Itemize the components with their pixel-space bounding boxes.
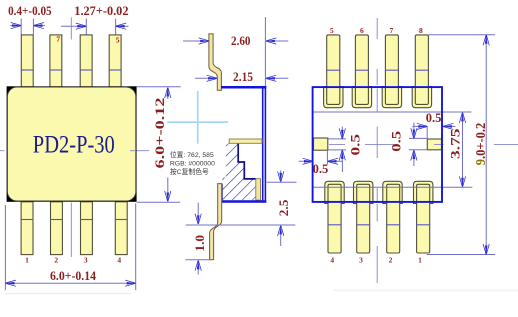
svg-text:7: 7: [390, 26, 394, 35]
dimension 2.15: [195, 70, 288, 84]
top pin 6: [355, 35, 369, 105]
dimension 3.75: [448, 112, 465, 186]
dimension 0.5 right pad height: [389, 123, 427, 167]
bottom pin 1: [21, 202, 34, 255]
svg-text:3: 3: [84, 255, 88, 264]
dimension 1.0: [186, 203, 212, 275]
svg-text:5: 5: [116, 35, 120, 44]
top pad 5: [324, 87, 343, 108]
top pin 8: [415, 35, 429, 105]
svg-text:4: 4: [117, 255, 121, 264]
dimension 0.5 left pad width: [299, 150, 343, 176]
top pin 7: [385, 35, 399, 105]
top pin 5: [109, 35, 122, 87]
svg-text:2.5: 2.5: [277, 200, 291, 217]
left side pad: [314, 138, 328, 150]
inner horizontal line bottom: [314, 186, 473, 188]
bottom pad 4: [325, 181, 344, 203]
svg-text:7: 7: [56, 35, 60, 44]
svg-text:0.4+-0.05: 0.4+-0.05: [8, 4, 52, 18]
svg-text:6: 6: [360, 26, 364, 35]
svg-text:0.5: 0.5: [426, 111, 442, 125]
bottom pin 1: [416, 184, 430, 253]
dimension 6.0+-0.14: [5, 204, 135, 291]
svg-text:0.5: 0.5: [348, 134, 362, 156]
dimension 0.4+-0.05: [8, 4, 52, 35]
bottom pin 2: [386, 184, 400, 253]
centerline horizontal over right pad: [434, 143, 518, 145]
package body black square: [7, 86, 137, 202]
top pin 7: [49, 35, 62, 87]
svg-text:1: 1: [25, 255, 29, 264]
svg-text:2.60: 2.60: [231, 34, 251, 48]
color picker tooltip: [166, 145, 226, 178]
svg-text:位置: 762, 585: 位置: 762, 585: [170, 150, 214, 159]
svg-text:3: 3: [359, 255, 363, 264]
svg-text:5: 5: [330, 26, 334, 35]
top pad 8: [412, 87, 431, 108]
svg-text:4: 4: [330, 255, 334, 264]
svg-text:3.75: 3.75: [448, 129, 462, 160]
svg-text:2: 2: [389, 255, 393, 264]
lower gull-wing lead: [210, 184, 222, 260]
svg-text:8: 8: [419, 26, 423, 35]
bottom pad 2: [383, 181, 402, 203]
svg-text:PD2-P-30: PD2-P-30: [33, 131, 115, 158]
bottom pin 4: [328, 184, 342, 253]
svg-text:RGB: #000000: RGB: #000000: [170, 161, 215, 168]
centerline vertical: [376, 18, 378, 283]
top pad 6: [352, 87, 371, 108]
bottom pin 4: [115, 202, 128, 255]
bottom pad 3: [354, 181, 373, 203]
top pin 6: [80, 35, 93, 87]
extension line above section right edge: [264, 17, 266, 86]
section left inner edge: [221, 184, 223, 201]
svg-text:1.0: 1.0: [193, 235, 207, 252]
upper gull-wing lead: [209, 34, 222, 90]
section step outline: [238, 143, 255, 179]
svg-text:9.0+-0.2: 9.0+-0.2: [473, 122, 488, 165]
top pin 8: [21, 35, 34, 87]
right side pad: [427, 139, 441, 150]
svg-text:按C复制色号: 按C复制色号: [170, 167, 209, 176]
svg-text:2: 2: [54, 255, 58, 264]
body outline rectangle: [313, 87, 442, 202]
color picker crosshair: [167, 91, 228, 144]
body centerline stub inside: [130, 150, 136, 152]
svg-text:6.0+-0.12: 6.0+-0.12: [153, 98, 167, 169]
svg-text:1.27+-0.02: 1.27+-0.02: [74, 4, 128, 18]
svg-text:1: 1: [418, 255, 422, 264]
section bottom thick line: [222, 200, 267, 203]
package body yellow rounded: [7, 87, 135, 201]
lead strip in section: [256, 179, 261, 200]
inner horizontal line top: [314, 111, 472, 113]
svg-text:0.5: 0.5: [313, 162, 329, 176]
section right double line: [262, 86, 264, 203]
top pin 5: [326, 35, 340, 105]
bottom pin 3: [80, 202, 93, 255]
top pad 7: [382, 87, 401, 108]
svg-text:2.15: 2.15: [233, 70, 253, 84]
svg-text:6.0+-0.14: 6.0+-0.14: [50, 269, 97, 283]
dimension 2.5: [186, 171, 297, 247]
bottom pin 2: [50, 202, 63, 255]
window frame faint lines: [334, 289, 518, 291]
centerline vertical: [70, 17, 72, 257]
centerline horizontal: [329, 143, 394, 145]
bottom pin 3: [356, 184, 370, 253]
svg-text:0.5: 0.5: [389, 131, 403, 152]
lead frame band: [229, 139, 262, 143]
bottom pad 1: [414, 181, 433, 203]
dimension 6.0+-0.12 (vertical, right of body): [137, 87, 181, 203]
dimension 0.5 right pad width: [412, 111, 455, 139]
centerline horizontal: [0, 150, 149, 152]
dimension 1.27+-0.02: [61, 4, 129, 35]
dimension 2.60: [183, 34, 288, 48]
hatched body section: [222, 143, 255, 200]
dimension 0.5 left pad height: [328, 127, 362, 164]
section top thick line: [221, 86, 266, 89]
dimension 9.0+-0.2: [427, 35, 496, 255]
